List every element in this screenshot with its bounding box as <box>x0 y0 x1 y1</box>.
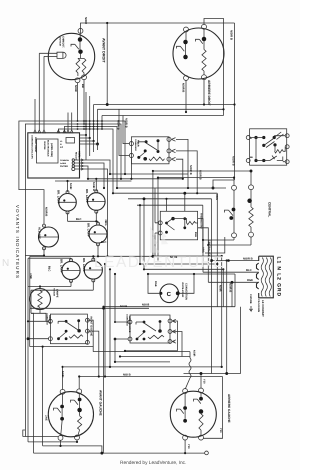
svg-text:RGE: RGE <box>247 279 253 282</box>
control box inner module <box>37 139 59 163</box>
svg-text:NOIR B: NOIR B <box>199 170 202 180</box>
wire rail y258.2 <box>28 257 71 259</box>
K1 switch arms <box>138 142 158 157</box>
central switch hook <box>225 210 234 216</box>
svg-text:BR. LAMP: BR. LAMP <box>60 259 64 273</box>
wire SW1 bottom left drop <box>77 82 79 121</box>
SW4 links <box>185 393 201 436</box>
svg-text:RGE: RGE <box>154 281 157 287</box>
svg-text:NOIR B: NOIR B <box>229 283 232 292</box>
wire bake R1 out <box>87 320 93 346</box>
wire rail y366.9 <box>64 366 222 368</box>
wire x98.8 vertical <box>87 331 98 376</box>
wire rail y181 <box>55 180 131 182</box>
wire central top feeds <box>234 171 251 186</box>
svg-text:ELECTRONIQUE: ELECTRONIQUE <box>47 140 50 157</box>
wire control right line2 <box>80 137 90 139</box>
wire rail y256.3 <box>30 255 153 257</box>
secondary terminal L2 <box>246 159 250 163</box>
wire vertical x102 <box>101 116 103 130</box>
wire SW1 top rail <box>81 23 235 33</box>
svg-text:J.NE: J.NE <box>45 415 48 421</box>
secondary inner bus <box>250 138 264 161</box>
svg-text:VOYANTS INDICATEURS: VOYANTS INDICATEURS <box>15 205 20 279</box>
junction broil dots <box>114 273 116 275</box>
wire SW1 plug lead 2 <box>44 55 57 57</box>
svg-text:ORG: ORG <box>104 220 107 226</box>
wire SW1 bottom right drop <box>83 79 85 124</box>
SW4 terminal bottom right <box>199 435 204 440</box>
broil switch arms <box>136 322 160 339</box>
svg-text:VENTILATEUR: VENTILATEUR <box>181 282 184 298</box>
wire x80.9 drop <box>78 377 80 390</box>
svg-text:NOIR B: NOIR B <box>117 120 120 130</box>
svg-text:BK: BK <box>250 156 254 159</box>
SW2 contact dot 1 <box>183 40 188 45</box>
junction bottom rail dots <box>62 366 64 368</box>
svg-text:NOIR B: NOIR B <box>125 118 128 128</box>
wire rail y178.8 <box>88 178 183 180</box>
thermostat terminal left 2 <box>158 231 162 235</box>
wire rail y373.5 <box>184 373 241 375</box>
wire rail y351.6 <box>93 351 190 353</box>
junction lamp dots <box>43 254 45 256</box>
svg-text:C: C <box>167 291 172 298</box>
wire x235 down <box>234 274 236 307</box>
svg-text:ARRIERE GAUCHE: ARRIERE GAUCHE <box>227 394 231 423</box>
relay box K1 outline <box>131 137 169 164</box>
svg-text:J.NE: J.NE <box>29 273 32 279</box>
wire DS7 bottom <box>39 310 41 314</box>
wire rail y356.5 <box>120 356 190 358</box>
SW3 terminal bottom right <box>75 435 80 440</box>
svg-text:L1 N L2 GRD: L1 N L2 GRD <box>276 257 282 297</box>
wire SW3 bottom drops <box>61 440 78 446</box>
SW1 contact dot upper <box>78 37 83 42</box>
SW1 switch hook <box>71 44 79 49</box>
svg-text:BLC: BLC <box>101 241 107 244</box>
wire y180 link <box>213 180 235 188</box>
wire x217.3 down <box>216 193 218 307</box>
junction midlow dots <box>139 263 141 265</box>
wire x152.9 down <box>152 171 154 256</box>
thermostat switch arms <box>167 219 185 230</box>
wire loop B <box>25 124 121 437</box>
wire rail y177.6 <box>158 177 234 179</box>
wire left x29.8 <box>29 256 31 308</box>
SW1 element links <box>78 54 84 76</box>
burner switch SW1 avant droit body <box>48 33 94 79</box>
wire control right line3 <box>80 140 94 142</box>
wire vertical x97.5 <box>97 109 99 144</box>
bake contact dots <box>65 320 68 323</box>
wire bottom L4 <box>34 452 206 454</box>
wire broil left feeds <box>115 274 128 362</box>
SW2 terminal bottom left <box>184 76 189 81</box>
wire bundle line 3 <box>64 127 117 189</box>
broil terminal L2 <box>128 337 132 341</box>
wire fan left feed <box>148 274 159 293</box>
svg-text:(HORLOGE): (HORLOGE) <box>50 143 53 157</box>
resistor K1 coil <box>149 157 165 161</box>
wire DS3 top <box>97 221 99 223</box>
SW3 terminal bottom left <box>58 435 63 440</box>
wire fan right feed <box>179 274 194 293</box>
control box pin triangles <box>34 130 37 133</box>
wire rail y264 <box>140 263 217 265</box>
SW3 terminal top left <box>60 389 65 394</box>
oven lamp DS7 <box>30 289 51 310</box>
wire bottom L3 <box>43 446 102 453</box>
convection fan motor M1 <box>160 284 179 303</box>
junction bottom dots <box>59 445 61 447</box>
svg-text:BR. LAMP: BR. LAMP <box>87 223 91 237</box>
SW3 terminal-dot links <box>62 393 79 404</box>
watermark emblem <box>150 226 168 253</box>
SW4 terminal bottom left <box>183 435 188 440</box>
svg-text:TEMOIN: TEMOIN <box>53 288 56 297</box>
svg-text:COMMANDE (CHALEUR): COMMANDE (CHALEUR) <box>31 135 34 159</box>
wire DS6 top feed <box>43 225 45 227</box>
svg-text:COMMANDE: COMMANDE <box>134 139 137 152</box>
wire DS3 bottom <box>97 244 99 256</box>
junction jog dots <box>106 22 108 24</box>
svg-text:AVANT DROIT: AVANT DROIT <box>102 38 106 63</box>
SW2 hook right <box>196 39 203 44</box>
wire K1 left2 up <box>119 109 130 155</box>
central terminal T1 <box>232 185 237 190</box>
svg-text:Y10: Y10 <box>187 444 190 449</box>
wire K1 right1 <box>176 139 188 188</box>
wire DS4 top <box>70 258 72 260</box>
wire x158 down <box>157 178 159 261</box>
wire rail y361.9 <box>115 361 170 363</box>
svg-text:NOIR: NOIR <box>219 285 222 292</box>
wire x211.5 down <box>211 199 213 367</box>
wire bundle line 4 <box>58 129 113 193</box>
wire coil drop <box>189 352 191 358</box>
wire x202.8 down <box>202 205 204 253</box>
wire DS1 top <box>67 181 69 192</box>
control box bottom pins <box>72 159 74 161</box>
broil terminal R3 <box>168 340 172 344</box>
SW3 contact dots <box>60 405 64 409</box>
svg-text:CUIVRE: CUIVRE <box>249 294 252 304</box>
wire bottom L1 <box>23 436 59 438</box>
wire rail y109.3 <box>98 108 224 110</box>
svg-text:NOI B: NOI B <box>123 373 131 376</box>
svg-text:AVANT GAUCHE: AVANT GAUCHE <box>99 390 103 417</box>
wire x110 vertical <box>109 269 111 367</box>
svg-text:BLC: BLC <box>48 266 51 272</box>
wire x33.5 vertical <box>31 313 34 453</box>
junction thermostat feed dots <box>165 198 167 200</box>
wire DS2 top <box>95 179 97 192</box>
broil terminal R1 <box>168 319 172 323</box>
K1 terminal left 1 <box>129 142 133 146</box>
oven element coil <box>189 358 191 378</box>
burner element SW3 avant gauche body <box>48 392 93 437</box>
svg-text:N: N <box>2 258 9 269</box>
junction bake dots <box>27 320 29 322</box>
wire rail y240 <box>203 239 234 241</box>
bake switch box outline <box>50 314 87 344</box>
ground arrow <box>249 306 252 311</box>
wire thermostat right out1 <box>198 219 203 240</box>
svg-text:ALLUME: ALLUME <box>38 227 42 239</box>
svg-text:RELAIS: RELAIS <box>75 152 78 160</box>
wire central res link <box>250 227 252 233</box>
secondary switch diagonals <box>264 132 284 148</box>
svg-text:CH/MIJOT.: CH/MIJOT. <box>62 36 65 48</box>
broil terminal R2 <box>168 330 172 334</box>
secondary terminal L1 <box>246 136 250 140</box>
svg-text:BR. LAMP: BR. LAMP <box>82 258 86 272</box>
junction more dots <box>102 306 104 308</box>
wire x223.3 down <box>222 269 224 306</box>
wire DS5 bottom <box>92 281 94 291</box>
wire control right line4 <box>80 143 98 145</box>
resistor SW4 element <box>199 414 203 430</box>
wire rail y256 <box>153 255 222 257</box>
wire central left branch <box>233 190 235 233</box>
wire rail y269.3 <box>144 268 223 270</box>
SW4 terminal top right <box>199 388 204 393</box>
wire DS2 bottom <box>95 212 97 222</box>
svg-text:GRILLE: GRILLE <box>48 315 51 324</box>
broil terminal L1 <box>128 320 132 324</box>
resistor central <box>249 207 253 227</box>
svg-text:BR: BR <box>81 84 84 88</box>
bake switch arms <box>58 321 79 338</box>
wire DS4 bottom <box>70 281 72 287</box>
wire SW2 top loop <box>204 19 224 116</box>
central terminal T2 <box>249 185 254 190</box>
central contact dots <box>232 208 236 212</box>
svg-text:NOIR B: NOIR B <box>230 30 234 40</box>
wire plug drop 2 <box>43 56 45 130</box>
svg-text:HORL.: HORL. <box>78 151 81 159</box>
junction x232 dot <box>231 281 234 284</box>
svg-text:BR. LAMP: BR. LAMP <box>57 190 61 204</box>
wire x140 up <box>139 205 141 264</box>
wire DS6 bottom <box>43 248 45 255</box>
svg-text:OUTER: OUTER <box>60 165 68 168</box>
SW2 contact link <box>185 44 187 55</box>
broil switch box outline <box>130 315 170 343</box>
wire thermostat right out2 <box>198 228 209 245</box>
svg-text:NOI B: NOI B <box>120 305 127 308</box>
svg-text:L1: L1 <box>60 140 63 143</box>
thermostat contact dots <box>165 222 168 225</box>
wire SW2 bottom left drop <box>185 80 187 112</box>
wire SW4 top right feed <box>200 374 202 389</box>
wire rail y188 <box>117 187 226 189</box>
wire SW2 bottom right drop <box>203 79 205 104</box>
bake terminal R1 <box>85 318 89 322</box>
K1 terminal right 1 <box>167 137 171 141</box>
control box U1 outline <box>28 133 80 178</box>
wire x240.6 vertical <box>240 307 242 374</box>
wire rail y245 <box>208 244 251 246</box>
wire thermostat links <box>185 219 198 223</box>
wire loop right SW4 <box>203 377 222 439</box>
wire vertical x93.6 <box>93 105 95 142</box>
svg-text:FOUR: FOUR <box>137 140 140 147</box>
svg-text:ARR. GAUCHE: ARR. GAUCHE <box>128 316 131 333</box>
pin out connector marks <box>81 159 83 170</box>
wire control pin right feeds <box>68 113 72 131</box>
secondary terminal R2 <box>285 145 289 149</box>
junction SW4 feed dot <box>200 372 203 375</box>
svg-text:AVANT GAUCHE: AVANT GAUCHE <box>90 316 93 336</box>
SW3 links <box>61 412 80 436</box>
wire x22.8 link <box>23 430 26 437</box>
svg-text:COMMANDE: COMMANDE <box>126 314 129 327</box>
SW4 contact dots <box>183 406 187 410</box>
wire vertical x86 <box>85 92 87 135</box>
svg-text:COMMON: COMMON <box>60 159 69 162</box>
wire x208.3 RGE <box>207 245 209 282</box>
control box DOOR connector <box>66 138 75 144</box>
fan rim dots <box>159 292 162 295</box>
wire bottom L2 <box>28 441 77 443</box>
wire rail y286.5 <box>28 286 71 288</box>
K1 terminal right 3 <box>167 157 171 161</box>
junction mid rail dots <box>124 173 126 175</box>
wire x103.5 vertical <box>103 307 105 452</box>
svg-text:BLE: BLE <box>194 232 197 237</box>
wire thermostat top feeds <box>167 193 185 211</box>
SW2 terminal top left <box>184 27 189 32</box>
wire x105 vertical <box>104 264 106 377</box>
K1 terminal right 2 <box>167 149 171 153</box>
svg-text:BLC: BLC <box>246 269 252 272</box>
svg-text:NOIR B: NOIR B <box>182 83 185 92</box>
wire broil right outs <box>172 321 182 357</box>
SW2 contact dot 2 <box>183 55 188 60</box>
svg-text:CONVECTION: CONVECTION <box>185 283 188 300</box>
wire y253 corner <box>205 237 225 253</box>
svg-text:ORG: ORG <box>215 194 218 200</box>
svg-text:NOIR B: NOIR B <box>45 207 48 216</box>
terminal block TB1 outline <box>257 256 274 298</box>
indicator lamp DS6 allume <box>39 227 59 247</box>
wire feed BLC TB1 <box>203 271 259 273</box>
wire rail y193.2 <box>113 192 217 194</box>
wire left x29.7 up <box>29 308 31 346</box>
indicator lamp DS4 <box>62 261 80 279</box>
wire K1 left2 down <box>130 157 132 179</box>
svg-text:LEADVENTURE: LEADVENTURE <box>94 254 225 271</box>
SW1 terminal bottom left <box>75 78 80 83</box>
burner switch SW2 arriere droit body <box>173 28 224 79</box>
svg-text:AVANT DROIT: AVANT DROIT <box>34 137 37 153</box>
svg-text:Y10: Y10 <box>219 428 222 433</box>
SW4 terminal top left <box>183 389 188 394</box>
wire rail y313.3 <box>31 313 46 321</box>
wire coil to SW4 <box>185 378 190 389</box>
svg-text:NOIR: NOIR <box>69 183 72 190</box>
junction TB dots <box>227 259 230 262</box>
wire x221.7 down <box>221 256 223 367</box>
svg-text:NOIR B: NOIR B <box>189 165 192 175</box>
svg-text:NOIR: NOIR <box>193 350 196 357</box>
power cord wave 3 <box>269 258 271 297</box>
svg-text:NOI B: NOI B <box>142 304 149 307</box>
wire rail y346.6 <box>30 347 93 352</box>
wire bake left feeds <box>28 321 49 338</box>
SW2 element links <box>186 29 204 75</box>
secondary terminal R1 <box>285 134 289 138</box>
SW1 terminal bottom right <box>82 75 87 80</box>
resistor secondary <box>275 150 284 153</box>
bake terminal L2 <box>48 337 52 341</box>
svg-text:NOIR B: NOIR B <box>232 156 235 166</box>
wire pin out 3 <box>75 166 89 179</box>
SW2 terminal top right <box>202 24 207 29</box>
svg-text:BR. LAMP: BR. LAMP <box>85 189 89 203</box>
burner element SW4 arriere gauche body <box>170 391 216 437</box>
svg-text:Rendered by LeadVenture, Inc.: Rendered by LeadVenture, Inc. <box>120 460 186 466</box>
wire rail y171 <box>153 170 251 172</box>
broil contact dots <box>143 321 146 324</box>
wire x42.6 vertical <box>42 347 44 446</box>
secondary switch box outline <box>250 129 287 165</box>
resistor thermostat <box>187 221 196 224</box>
wire x203 BLC <box>202 240 204 272</box>
wire x103.5 bottom <box>103 452 105 453</box>
wire x64 drop <box>62 367 64 390</box>
wire loop A <box>19 121 125 224</box>
bake terminal R2 <box>85 329 89 333</box>
bake terminal R3 <box>85 340 89 344</box>
broil chevron plugs <box>172 319 176 343</box>
wire x226.7 down <box>226 261 228 374</box>
K1 contact dots <box>145 140 148 143</box>
wire jog x107.2 <box>106 23 108 105</box>
wire DS5 top <box>92 256 94 259</box>
SW2 switch hook <box>177 46 185 51</box>
wire rail y174 <box>110 173 188 175</box>
secondary right links <box>264 136 285 162</box>
wire central right branch <box>250 189 252 207</box>
wire rail y350.8 <box>125 350 178 352</box>
wire thermostat left feeds <box>155 188 159 256</box>
wire y366.9 corner x211 <box>211 367 213 374</box>
svg-text:L2: L2 <box>60 146 63 149</box>
wire rail x234.5 down <box>234 23 236 180</box>
svg-text:LE CONDUIT: LE CONDUIT <box>261 300 264 317</box>
K1 chevron plugs <box>172 138 176 161</box>
svg-text:THERMOSTAT: THERMOSTAT <box>200 213 203 229</box>
wire pin out 4 <box>75 169 108 256</box>
SW1 terminal top <box>78 28 83 33</box>
wire x144 up <box>143 199 145 269</box>
svg-text:MOTEUR: MOTEUR <box>59 37 62 47</box>
SW2 terminal bottom right <box>202 75 207 80</box>
wire SW1 terminal-dot link <box>79 33 81 38</box>
junction control right dots <box>85 134 87 136</box>
wire rail y198.8 <box>128 198 212 200</box>
SW3 switch arms <box>54 400 80 417</box>
central terminal B2 <box>249 232 254 237</box>
wire DS6 link left <box>25 255 44 257</box>
wire x232 seg <box>231 282 233 306</box>
SW1 plug body <box>57 52 66 58</box>
indicator lamp DS5 <box>84 261 102 279</box>
resistor SW1 element right <box>82 58 86 72</box>
